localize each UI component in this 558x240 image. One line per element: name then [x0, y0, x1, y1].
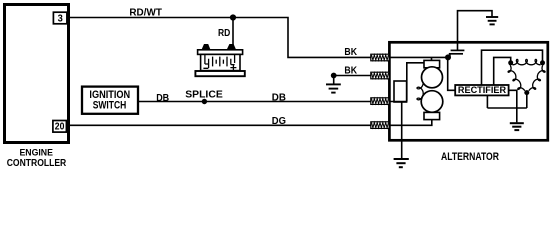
svg-text:RD: RD — [218, 28, 230, 39]
label ENGINE CONTROLLER — [7, 148, 67, 169]
wire DG from pin 20 to alternator connector C4 then up to lower brush — [67, 120, 432, 126]
brush (upper) — [424, 60, 440, 67]
svg-text:RD/WT: RD/WT — [129, 8, 162, 19]
wire RD battery feed — [232, 18, 234, 47]
svg-text:DB: DB — [272, 92, 286, 103]
stator node bottom — [524, 90, 529, 95]
battery B1 — [195, 44, 244, 76]
stator winding right (delta) — [529, 65, 545, 91]
wire rectifier output to internal ground G4 — [509, 90, 517, 122]
splice node — [202, 99, 207, 104]
stator winding top (delta) — [513, 59, 541, 64]
capacitor C1 (noise suppressor) — [449, 50, 465, 56]
ignition switch box — [82, 87, 138, 114]
ground G4 inside alternator — [510, 123, 524, 130]
svg-text:CONTROLLER: CONTROLLER — [7, 158, 67, 169]
svg-text:20: 20 — [55, 122, 65, 133]
wire capacitor to external ground G2 — [458, 11, 493, 51]
connector C4 (DG wire) — [371, 122, 389, 129]
connector C2 (BK ground wire) — [371, 72, 389, 79]
wire rectifier bottom to ground bus — [486, 95, 488, 108]
stator winding left (delta) — [508, 65, 525, 91]
svg-text:SPLICE: SPLICE — [185, 88, 223, 100]
svg-text:BK: BK — [344, 66, 357, 77]
svg-text:DB: DB — [156, 93, 169, 104]
brush (lower) — [424, 112, 440, 119]
wire BK ground wire to connector C2 — [334, 75, 388, 77]
wire field riser from DB wire up to upper brush — [407, 63, 424, 102]
slip ring (upper) — [422, 67, 443, 88]
svg-text:3: 3 — [58, 13, 63, 24]
ground bus wire — [487, 107, 526, 109]
wire stub upper brush to BK wire — [431, 57, 433, 60]
connector C3 (DB field wire) — [371, 98, 389, 105]
svg-text:DG: DG — [272, 116, 286, 127]
wire rectifier to stator left terminal — [494, 57, 511, 85]
svg-text:ENGINE: ENGINE — [19, 148, 53, 158]
wire DB from ignition switch to alternator connector C3 — [138, 101, 407, 103]
wire stator bottom node to ground bus — [526, 93, 528, 108]
wire node down to rectifier input — [448, 57, 455, 90]
svg-text:RECTIFIER: RECTIFIER — [458, 85, 507, 95]
wire RD/WT from pin 3 to alternator connector C1 — [68, 18, 448, 58]
svg-text:BK: BK — [344, 47, 357, 58]
ground G2 above alternator — [486, 17, 498, 24]
junction node battery tap — [230, 14, 236, 20]
pin 20 terminal box — [53, 121, 67, 133]
rectifier box U1 — [455, 85, 508, 95]
field winding coil (rotor) — [417, 83, 423, 105]
connector C1 (BK wire to alternator) — [371, 54, 389, 61]
alternator box — [389, 42, 547, 140]
ground G3 below alternator — [394, 159, 409, 167]
engine controller box — [5, 5, 69, 143]
svg-text:SWITCH: SWITCH — [93, 100, 127, 112]
wire internal ground drop from DB wire to external ground G3 — [401, 102, 403, 159]
slip ring (lower) — [421, 91, 443, 113]
voltage regulator box — [394, 81, 407, 102]
pin 3 terminal box — [53, 12, 67, 24]
junction node capacitor / BK wire — [445, 54, 451, 60]
svg-text:ALTERNATOR: ALTERNATOR — [441, 151, 499, 163]
stator node left — [508, 60, 513, 65]
wire rectifier to stator right terminal — [482, 50, 543, 85]
stator node right — [540, 60, 545, 65]
ground G1 with node — [326, 73, 341, 93]
